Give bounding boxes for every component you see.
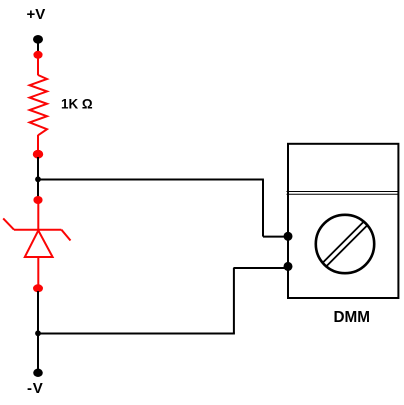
svg-text:+V: +V [27, 6, 46, 23]
wire DMM corner drop (vertical) [262, 180, 264, 237]
node DMM V+ terminal dot [284, 232, 293, 241]
wire red node to junction B [37, 291, 39, 334]
wire red into zener cathode [37, 200, 39, 230]
wire junction B to -V terminal [37, 333, 39, 369]
node red dot R1 top [33, 51, 42, 59]
wire red into R1 [37, 55, 39, 75]
wire DMM corner rise (vertical) [233, 268, 235, 334]
zener diode D1 [3, 218, 70, 257]
wire R1 bottom to red node [37, 135, 39, 151]
wire into DMM V+ terminal [263, 236, 288, 238]
wire +V dot to R1 top node [37, 39, 39, 55]
node -V terminal dot [33, 369, 43, 377]
node +V terminal dot [33, 35, 43, 44]
wire red node to junction A [37, 157, 39, 180]
node red dot R1 bottom [33, 150, 43, 159]
DMM meter body U1 [288, 144, 398, 298]
wire junction A down to zener top node [37, 179, 39, 197]
wire into DMM V- terminal [233, 267, 288, 269]
wire junction B to DMM corner (horizontal) [38, 333, 235, 335]
svg-text:DMM: DMM [334, 309, 371, 326]
junction node A [35, 176, 41, 182]
DMM dial knob [316, 215, 374, 273]
svg-text:1K Ω: 1K Ω [61, 96, 93, 111]
node red dot zener cathode [33, 196, 42, 204]
DMM display separator (double line) [287, 192, 399, 195]
resistor R1 [30, 75, 47, 135]
wire zener anode to red node [37, 257, 39, 285]
wire junction A to DMM corner (horizontal) [38, 179, 264, 181]
node DMM V- terminal dot [284, 262, 293, 271]
DMM dial indicator slot [323, 222, 367, 266]
node red dot zener anode [33, 284, 43, 292]
svg-text:-V: -V [27, 380, 44, 397]
junction node B [35, 330, 41, 336]
